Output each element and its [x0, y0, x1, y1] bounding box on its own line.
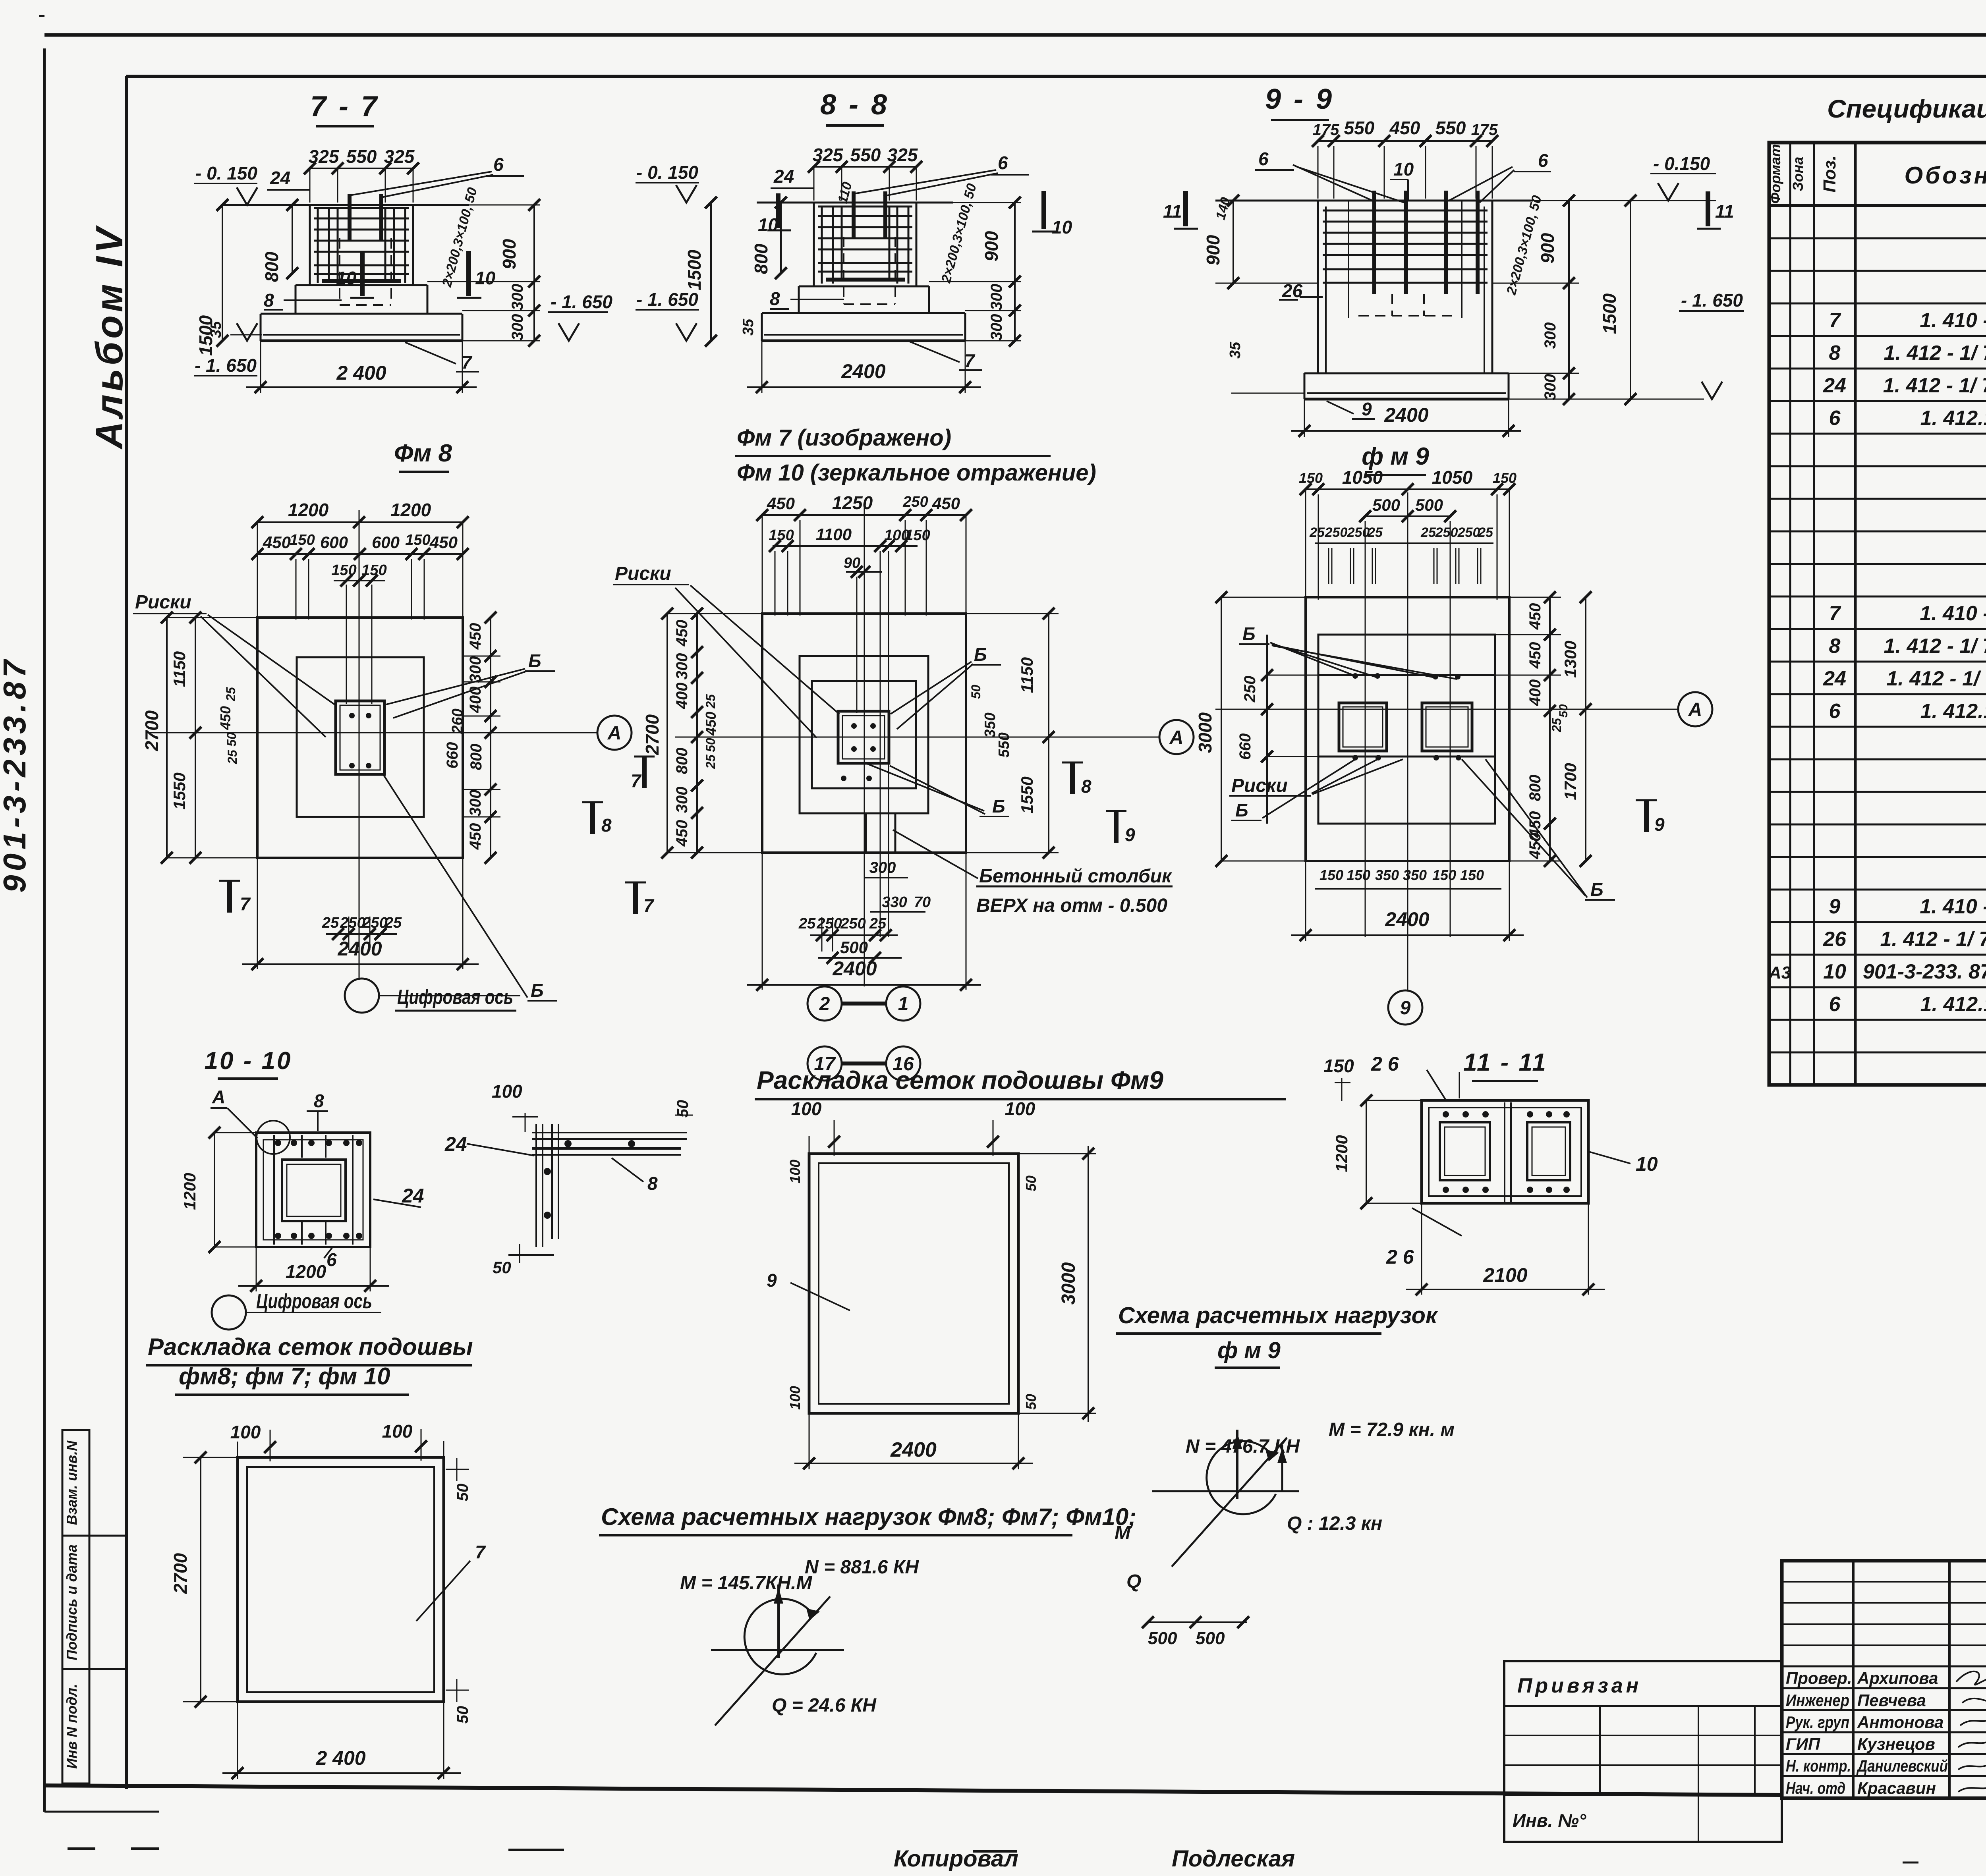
- svg-text:90: 90: [844, 555, 860, 571]
- svg-text:7: 7: [240, 894, 251, 914]
- svg-text:350: 350: [1403, 867, 1427, 883]
- svg-text:250: 250: [1457, 525, 1480, 540]
- svg-text:550: 550: [1435, 118, 1466, 138]
- svg-text:Риски: Риски: [615, 563, 671, 584]
- svg-text:А: А: [212, 1087, 225, 1107]
- svg-text:35: 35: [740, 318, 757, 336]
- svg-text:300: 300: [673, 787, 691, 813]
- svg-text:А3: А3: [1768, 963, 1791, 982]
- svg-text:Подлеская: Подлеская: [1172, 1846, 1295, 1872]
- svg-text:6: 6: [493, 154, 504, 175]
- svg-text:25: 25: [224, 687, 238, 702]
- svg-text:- 1. 650: - 1. 650: [551, 291, 612, 312]
- svg-text:Спецификация элементов монол: Спецификация элементов монолитных элемен…: [1827, 95, 1986, 123]
- svg-text:фм8; фм 7; фм 10: фм8; фм 7; фм 10: [179, 1363, 390, 1390]
- svg-text:500: 500: [1372, 496, 1400, 514]
- svg-text:1150: 1150: [1018, 657, 1036, 693]
- svg-text:25: 25: [703, 694, 718, 709]
- svg-text:450: 450: [673, 620, 691, 647]
- svg-text:100: 100: [787, 1386, 803, 1410]
- svg-text:N = 476.7 КН: N = 476.7 КН: [1186, 1436, 1300, 1457]
- svg-text:600: 600: [372, 533, 400, 552]
- svg-text:1. 410 - 3. 1 - 12: 1. 410 - 3. 1 - 12: [1920, 895, 1986, 918]
- svg-text:450: 450: [1389, 118, 1420, 138]
- svg-text:Поз.: Поз.: [1820, 155, 1839, 192]
- svg-text:Фм 7 (изображено): Фм 7 (изображено): [737, 425, 951, 451]
- svg-text:6: 6: [1829, 700, 1841, 723]
- svg-text:Б: Б: [1242, 623, 1256, 644]
- svg-text:Схема расчетных нагрузок: Схема расчетных нагрузок: [1118, 1303, 1438, 1328]
- svg-text:100: 100: [492, 1081, 522, 1102]
- svg-text:10: 10: [475, 268, 496, 288]
- svg-text:24: 24: [1823, 667, 1846, 690]
- svg-text:1. 412 - 1/ 77 - В.3 - 110: 1. 412 - 1/ 77 - В.3 - 110: [1884, 635, 1986, 658]
- svg-text:800: 800: [751, 243, 771, 274]
- svg-text:25: 25: [869, 915, 887, 932]
- svg-text:А: А: [607, 723, 622, 744]
- svg-text:Н. контр.: Н. контр.: [1786, 1756, 1851, 1775]
- svg-text:1. 412.1 - 4. 060: 1. 412.1 - 4. 060: [1920, 700, 1986, 723]
- svg-text:100: 100: [791, 1098, 822, 1119]
- svg-text:1. 410 - 3. 1 - 12: 1. 410 - 3. 1 - 12: [1920, 602, 1986, 625]
- svg-text:900: 900: [1537, 233, 1558, 263]
- svg-text:7: 7: [964, 350, 976, 371]
- svg-text:450: 450: [703, 712, 719, 736]
- svg-text:10: 10: [1393, 159, 1414, 179]
- svg-text:10: 10: [1052, 217, 1072, 237]
- svg-text:300: 300: [673, 653, 691, 680]
- svg-text:260: 260: [449, 708, 466, 734]
- svg-text:1500: 1500: [684, 249, 705, 290]
- svg-text:150: 150: [331, 562, 356, 579]
- svg-text:8: 8: [314, 1090, 324, 1111]
- svg-text:1. 412.1 - 4. 060: 1. 412.1 - 4. 060: [1920, 993, 1986, 1016]
- svg-text:2400: 2400: [832, 957, 877, 980]
- svg-text:250: 250: [1435, 525, 1458, 540]
- svg-text:24: 24: [444, 1133, 467, 1155]
- svg-text:150: 150: [1432, 867, 1456, 883]
- svg-text:Нач. отд: Нач. отд: [1786, 1779, 1845, 1797]
- svg-text:Раскладка сеток подошвы: Раскладка сеток подошвы: [148, 1334, 473, 1360]
- svg-text:450: 450: [932, 494, 960, 513]
- svg-text:150: 150: [405, 532, 430, 548]
- svg-text:1200: 1200: [390, 500, 431, 520]
- svg-text:100: 100: [230, 1422, 261, 1442]
- svg-text:250: 250: [816, 915, 842, 932]
- svg-text:2400: 2400: [1384, 404, 1428, 426]
- svg-text:Формат: Формат: [1767, 144, 1783, 204]
- svg-text:8: 8: [647, 1173, 658, 1194]
- svg-text:7: 7: [643, 895, 655, 916]
- svg-text:450: 450: [1526, 642, 1544, 669]
- svg-text:1200: 1200: [180, 1173, 199, 1210]
- svg-text:70: 70: [914, 894, 931, 911]
- svg-text:2 6: 2 6: [1371, 1053, 1399, 1075]
- svg-text:- 1. 650: - 1. 650: [636, 289, 698, 310]
- svg-text:100: 100: [787, 1160, 803, 1183]
- svg-text:150: 150: [769, 527, 794, 544]
- svg-text:ВЕРХ на отм - 0.500: ВЕРХ на отм - 0.500: [976, 895, 1167, 916]
- svg-text:10: 10: [1636, 1153, 1658, 1175]
- svg-text:35: 35: [1227, 342, 1244, 359]
- svg-text:2400: 2400: [337, 938, 382, 960]
- svg-text:8: 8: [1829, 342, 1841, 365]
- svg-text:250: 250: [362, 915, 387, 931]
- svg-text:25: 25: [1549, 718, 1564, 733]
- svg-text:100: 100: [382, 1421, 413, 1442]
- svg-text:600: 600: [320, 533, 348, 552]
- svg-text:ф м 9: ф м 9: [1362, 443, 1429, 470]
- svg-text:Фм 10 (зеркальное отражение): Фм 10 (зеркальное отражение): [737, 460, 1096, 486]
- svg-text:150: 150: [1460, 867, 1484, 883]
- svg-text:330: 330: [882, 894, 907, 911]
- svg-text:26: 26: [1823, 928, 1847, 951]
- svg-text:Кузнецов: Кузнецов: [1857, 1735, 1935, 1753]
- svg-text:900: 900: [1203, 235, 1223, 265]
- svg-text:Подпись и дата: Подпись и дата: [64, 1544, 80, 1660]
- svg-text:6: 6: [326, 1249, 337, 1270]
- svg-text:450: 450: [467, 623, 484, 650]
- svg-text:Раскладка сеток подошвы Фм9: Раскладка сеток подошвы Фм9: [757, 1066, 1163, 1094]
- svg-text:8: 8: [770, 288, 780, 309]
- svg-text:Цифровая ось: Цифровая ось: [256, 1290, 372, 1313]
- svg-text:2 400: 2 400: [336, 362, 386, 384]
- svg-text:26: 26: [1282, 280, 1303, 301]
- svg-text:25: 25: [703, 754, 718, 769]
- svg-text:50: 50: [703, 738, 718, 752]
- svg-text:25: 25: [1309, 525, 1325, 540]
- svg-text:Б: Б: [992, 796, 1005, 816]
- svg-text:М: М: [1115, 1523, 1131, 1544]
- svg-text:800: 800: [261, 251, 282, 282]
- svg-text:1: 1: [898, 994, 909, 1015]
- svg-text:800: 800: [1526, 775, 1544, 801]
- svg-text:500: 500: [1148, 1629, 1177, 1648]
- svg-text:10: 10: [758, 214, 779, 235]
- svg-text:50: 50: [1023, 1175, 1039, 1191]
- svg-text:140: 140: [1213, 196, 1233, 222]
- svg-text:Зона: Зона: [1790, 157, 1806, 191]
- svg-text:Q: Q: [1126, 1571, 1141, 1592]
- svg-text:35: 35: [208, 321, 224, 338]
- svg-text:450: 450: [1526, 833, 1544, 860]
- svg-text:1200: 1200: [288, 500, 329, 520]
- svg-text:Б: Б: [531, 980, 544, 1001]
- svg-text:400: 400: [1526, 679, 1544, 706]
- svg-text:1150: 1150: [170, 651, 189, 687]
- svg-text:1100: 1100: [816, 525, 852, 544]
- svg-text:50: 50: [1023, 1394, 1039, 1410]
- svg-text:Копировал: Копировал: [894, 1846, 1018, 1872]
- svg-text:2100: 2100: [1483, 1264, 1527, 1286]
- svg-text:11: 11: [1163, 201, 1182, 222]
- svg-text:25: 25: [798, 915, 816, 932]
- svg-text:2×200,3×100, 50: 2×200,3×100, 50: [938, 182, 979, 285]
- svg-text:50: 50: [454, 1484, 471, 1502]
- svg-text:325: 325: [309, 146, 340, 167]
- svg-text:Данилевский: Данилевский: [1857, 1756, 1948, 1775]
- svg-text:1200: 1200: [286, 1261, 326, 1282]
- svg-text:Инженер: Инженер: [1786, 1691, 1849, 1710]
- svg-text:500: 500: [1415, 496, 1443, 514]
- svg-text:1550: 1550: [170, 772, 189, 809]
- svg-text:8: 8: [1081, 776, 1092, 797]
- svg-text:М = 72.9 кн. м: М = 72.9 кн. м: [1329, 1419, 1455, 1440]
- svg-text:8: 8: [264, 290, 274, 311]
- svg-text:50: 50: [1557, 704, 1570, 718]
- svg-text:Певчева: Певчева: [1857, 1691, 1926, 1710]
- svg-text:Q = 24.6 КН: Q = 24.6 КН: [772, 1695, 877, 1716]
- svg-text:2400: 2400: [841, 360, 885, 382]
- svg-text:Красавин: Красавин: [1857, 1779, 1936, 1797]
- svg-text:50: 50: [969, 685, 983, 699]
- svg-text:2: 2: [819, 994, 830, 1015]
- svg-text:2 6: 2 6: [1386, 1246, 1414, 1268]
- svg-text:Q : 12.3 кн: Q : 12.3 кн: [1287, 1513, 1382, 1534]
- svg-text:250: 250: [1347, 525, 1370, 540]
- svg-text:8: 8: [601, 815, 612, 836]
- svg-text:901-3-233.87: 901-3-233.87: [0, 656, 32, 893]
- svg-text:Привязан: Привязан: [1517, 1674, 1642, 1697]
- svg-text:1550: 1550: [1018, 776, 1036, 813]
- svg-text:9 - 9: 9 - 9: [1265, 83, 1334, 115]
- svg-text:900: 900: [981, 231, 1002, 261]
- svg-text:150: 150: [1493, 470, 1517, 486]
- svg-text:8: 8: [1829, 635, 1841, 658]
- svg-text:450: 450: [767, 494, 795, 513]
- svg-text:Бетонный столбик: Бетонный столбик: [979, 866, 1173, 887]
- svg-text:50: 50: [493, 1258, 511, 1277]
- svg-text:7 - 7: 7 - 7: [310, 91, 379, 122]
- svg-text:25: 25: [384, 915, 402, 931]
- svg-text:Обозначение: Обозначение: [1904, 162, 1986, 189]
- svg-text:6: 6: [998, 152, 1008, 173]
- svg-text:- 1. 650: - 1. 650: [1681, 290, 1743, 311]
- svg-text:3000: 3000: [1195, 712, 1215, 753]
- svg-text:1. 412 - 1/ 77 - В.3 - 040: 1. 412 - 1/ 77 - В.3 - 040: [1883, 374, 1986, 397]
- svg-text:250: 250: [840, 915, 865, 932]
- svg-text:500: 500: [1196, 1629, 1225, 1648]
- svg-text:А: А: [1688, 699, 1702, 720]
- svg-text:300: 300: [467, 656, 484, 683]
- svg-text:Взам. инв.N: Взам. инв.N: [64, 1440, 80, 1525]
- svg-text:1050: 1050: [1432, 467, 1473, 488]
- svg-text:3000: 3000: [1058, 1262, 1079, 1305]
- svg-text:11: 11: [1715, 201, 1734, 222]
- svg-text:2400: 2400: [1385, 908, 1429, 930]
- svg-text:25: 25: [225, 749, 240, 764]
- svg-text:800: 800: [468, 744, 485, 770]
- svg-text:1. 412.1 - 4. 060: 1. 412.1 - 4. 060: [1920, 407, 1986, 430]
- svg-text:300: 300: [467, 790, 484, 816]
- svg-text:8 - 8: 8 - 8: [820, 89, 889, 121]
- svg-text:Б: Б: [1590, 879, 1603, 900]
- svg-text:7: 7: [1829, 309, 1841, 332]
- svg-text:ГИП: ГИП: [1786, 1735, 1820, 1753]
- svg-text:50: 50: [674, 1100, 692, 1118]
- svg-text:А: А: [1169, 727, 1184, 748]
- svg-text:1250: 1250: [832, 492, 873, 513]
- svg-text:24: 24: [402, 1185, 424, 1207]
- svg-text:- 0. 150: - 0. 150: [636, 162, 698, 183]
- svg-text:25: 25: [1420, 525, 1436, 540]
- svg-text:10: 10: [1823, 960, 1846, 983]
- svg-text:6: 6: [1538, 150, 1548, 171]
- svg-text:Б: Б: [974, 644, 987, 665]
- svg-text:7: 7: [462, 352, 473, 372]
- svg-text:1500: 1500: [1599, 293, 1620, 334]
- svg-text:50: 50: [454, 1706, 471, 1724]
- svg-text:250: 250: [1241, 676, 1259, 703]
- svg-text:50: 50: [224, 732, 239, 747]
- svg-text:10: 10: [336, 268, 357, 288]
- svg-text:550: 550: [850, 145, 881, 165]
- svg-text:250: 250: [1325, 525, 1348, 540]
- svg-text:Б: Б: [528, 650, 541, 671]
- svg-text:Антонова: Антонова: [1857, 1713, 1943, 1731]
- svg-text:450: 450: [263, 533, 291, 552]
- svg-text:900: 900: [499, 239, 520, 269]
- svg-text:325: 325: [813, 145, 844, 165]
- svg-text:24: 24: [270, 168, 290, 188]
- svg-text:175: 175: [1471, 121, 1498, 139]
- svg-text:Цифровая ось: Цифровая ось: [397, 986, 513, 1009]
- svg-text:660: 660: [1236, 733, 1254, 760]
- svg-text:Альбом IV: Альбом IV: [88, 225, 131, 450]
- svg-text:7: 7: [475, 1542, 486, 1562]
- svg-text:7: 7: [631, 770, 642, 791]
- svg-text:9: 9: [1362, 399, 1372, 419]
- svg-text:550: 550: [1344, 118, 1375, 138]
- svg-text:150: 150: [1299, 470, 1323, 486]
- svg-text:Риски: Риски: [1231, 775, 1288, 796]
- svg-text:Инв. №°: Инв. №°: [1513, 1810, 1586, 1831]
- svg-text:24: 24: [1823, 374, 1846, 397]
- svg-text:1050: 1050: [1342, 467, 1383, 488]
- svg-text:450: 450: [217, 706, 234, 730]
- svg-text:250: 250: [340, 915, 365, 931]
- svg-text:- 0.150: - 0.150: [1653, 153, 1710, 174]
- svg-text:N = 881.6 КН: N = 881.6 КН: [805, 1557, 919, 1578]
- svg-text:450: 450: [467, 823, 484, 850]
- svg-text:150: 150: [361, 562, 386, 579]
- svg-text:325: 325: [384, 146, 415, 167]
- svg-text:2 400: 2 400: [315, 1747, 365, 1769]
- svg-text:Схема расчетных нагрузок Фм8: Схема расчетных нагрузок Фм8; Фм7; Фм10;: [601, 1504, 1136, 1530]
- svg-text:2400: 2400: [890, 1438, 937, 1461]
- svg-text:Риски: Риски: [135, 592, 191, 613]
- svg-text:ф м 9: ф м 9: [1217, 1338, 1281, 1363]
- svg-text:660: 660: [444, 742, 461, 769]
- svg-text:300: 300: [869, 859, 896, 876]
- svg-text:9: 9: [1829, 895, 1841, 918]
- svg-text:300: 300: [1542, 374, 1559, 401]
- svg-text:325: 325: [887, 145, 918, 165]
- svg-text:6: 6: [1829, 407, 1841, 430]
- svg-text:М = 145.7КН.М: М = 145.7КН.М: [680, 1573, 812, 1594]
- svg-text:400: 400: [673, 683, 691, 710]
- svg-text:9: 9: [1654, 814, 1665, 835]
- svg-text:1200: 1200: [1332, 1135, 1351, 1172]
- svg-text:1. 412 - 1/ 77 - В.5. 040: 1. 412 - 1/ 77 - В.5. 040: [1886, 667, 1986, 690]
- svg-text:350: 350: [1375, 867, 1399, 883]
- svg-text:Провер.: Провер.: [1786, 1669, 1852, 1687]
- svg-text:2700: 2700: [141, 710, 162, 751]
- svg-text:25: 25: [1367, 525, 1383, 540]
- svg-text:450: 450: [1526, 603, 1544, 630]
- svg-text:9: 9: [767, 1270, 777, 1291]
- svg-text:Фм 8: Фм 8: [394, 440, 452, 467]
- svg-text:150: 150: [1347, 867, 1370, 883]
- svg-text:901-3-233. 87: 901-3-233. 87: [1863, 960, 1986, 983]
- svg-text:1. 410 - 3. 1 - 12: 1. 410 - 3. 1 - 12: [1920, 309, 1986, 332]
- svg-text:100: 100: [1005, 1098, 1036, 1119]
- svg-text:400: 400: [467, 687, 484, 714]
- svg-text:300: 300: [509, 314, 526, 341]
- svg-text:550: 550: [346, 146, 377, 167]
- svg-text:150: 150: [1323, 1056, 1354, 1076]
- svg-text:800: 800: [673, 748, 691, 774]
- svg-text:9: 9: [1125, 824, 1135, 845]
- svg-text:25: 25: [322, 915, 339, 931]
- svg-text:2×200,3×100, 50: 2×200,3×100, 50: [439, 186, 480, 289]
- svg-text:1300: 1300: [1561, 641, 1580, 677]
- svg-text:150: 150: [905, 527, 930, 544]
- svg-text:1. 412 - 1/ 77 - В.3 - 110: 1. 412 - 1/ 77 - В.3 - 110: [1884, 342, 1986, 365]
- svg-text:300: 300: [988, 314, 1005, 341]
- svg-text:6: 6: [1829, 993, 1841, 1016]
- svg-text:500: 500: [840, 938, 868, 957]
- svg-text:1. 412 - 1/ 77 - В.3 - 12 0: 1. 412 - 1/ 77 - В.3 - 12 0: [1880, 928, 1986, 951]
- svg-text:Инв N подл.: Инв N подл.: [64, 1684, 80, 1769]
- svg-text:2700: 2700: [642, 714, 663, 755]
- svg-text:- 1. 650: - 1. 650: [195, 355, 257, 376]
- svg-text:250: 250: [902, 494, 928, 510]
- svg-text:- 0. 150: - 0. 150: [195, 163, 257, 183]
- svg-text:Архипова: Архипова: [1857, 1669, 1938, 1687]
- svg-text:10 - 10: 10 - 10: [204, 1047, 292, 1075]
- svg-text:300: 300: [988, 284, 1005, 311]
- svg-text:11 - 11: 11 - 11: [1463, 1049, 1547, 1076]
- svg-text:6: 6: [1258, 149, 1269, 169]
- svg-text:1700: 1700: [1561, 763, 1580, 800]
- svg-text:175: 175: [1313, 121, 1339, 139]
- svg-text:450: 450: [673, 820, 691, 847]
- svg-text:25: 25: [1478, 525, 1493, 540]
- svg-text:300: 300: [1542, 322, 1559, 349]
- svg-text:150: 150: [290, 532, 315, 548]
- svg-text:24: 24: [773, 166, 794, 187]
- svg-text:300: 300: [509, 284, 526, 311]
- svg-text:150: 150: [1319, 867, 1343, 883]
- svg-text:450: 450: [429, 533, 458, 552]
- svg-text:2700: 2700: [170, 1553, 191, 1594]
- svg-text:Б: Б: [1235, 800, 1248, 820]
- svg-text:Рук. груп: Рук. груп: [1786, 1713, 1849, 1731]
- svg-text:7: 7: [1829, 602, 1841, 625]
- svg-text:550: 550: [996, 732, 1012, 757]
- svg-text:9: 9: [1400, 998, 1411, 1019]
